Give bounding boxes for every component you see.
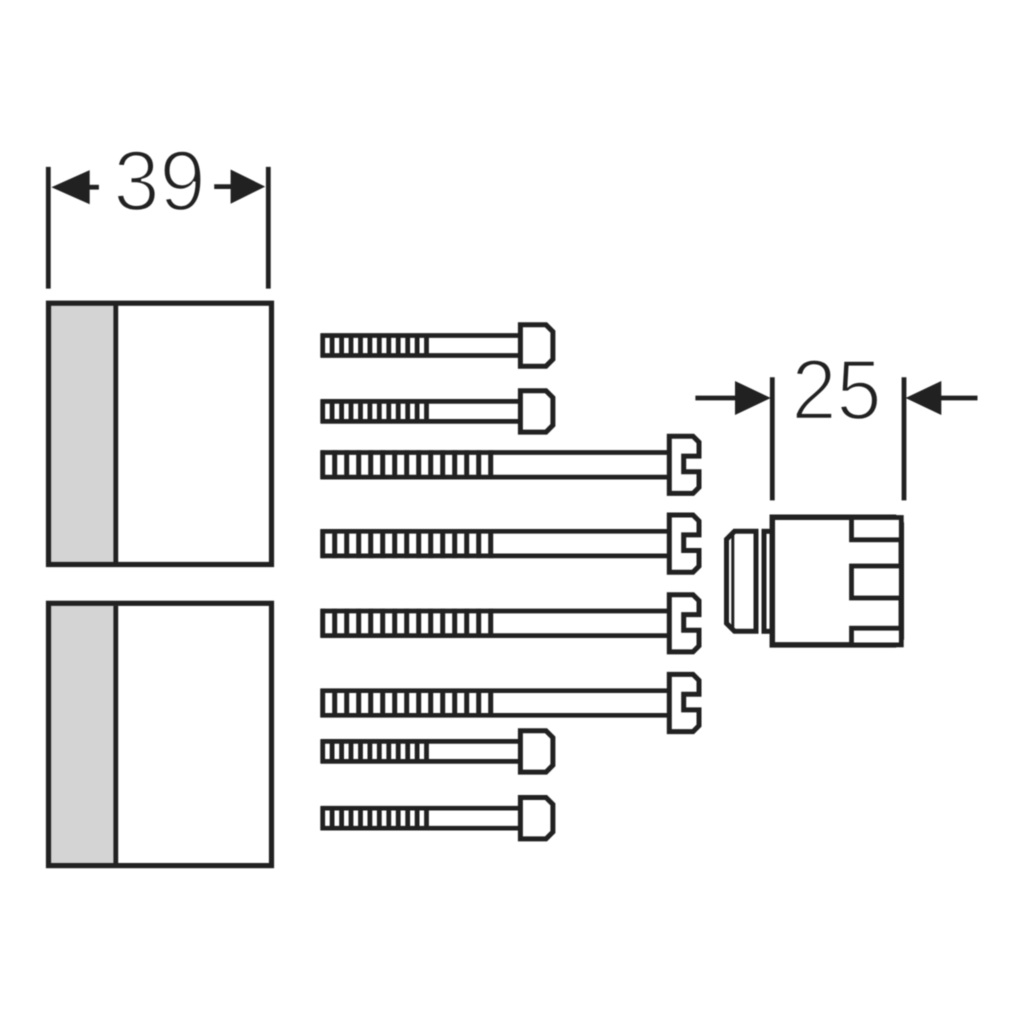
screw S5 (long slotted cheese-head screw)	[321, 595, 699, 652]
block 1: inner divider line	[113, 306, 118, 563]
adapter: middle spline slot	[852, 566, 902, 598]
screw S7 (short cap-head screw)	[321, 731, 553, 772]
dimension 39: value label "39"	[114, 134, 206, 229]
adapter: spigot inner contour line	[731, 535, 734, 628]
svg-text:25: 25	[792, 343, 882, 438]
adapter: collar ring groove	[764, 531, 772, 631]
adapter: main body (chamfered right corners)	[772, 517, 901, 645]
screw S4 (long slotted cheese-head screw)	[321, 515, 699, 572]
dimension 25: right arrow (points left)	[906, 381, 978, 415]
block 2: outline	[49, 603, 272, 865]
dimension 25: left arrow (points right)	[695, 381, 770, 415]
dimension 25: left extension line	[770, 377, 775, 500]
screw S6 (long slotted cheese-head screw)	[321, 674, 699, 731]
dimension 25: value label "25"	[792, 343, 882, 438]
dimension 39: right arrow (points right)	[214, 170, 265, 204]
block 2 (lower plate): gray left band	[51, 606, 116, 864]
svg-text:39: 39	[114, 134, 206, 229]
dimension 39: left extension line	[46, 167, 51, 289]
dimension 39: right extension line	[266, 167, 271, 289]
adapter: front spigot (chamfered left corners)	[727, 531, 757, 631]
block 1 (upper plate): gray left band	[51, 306, 116, 563]
adapter: bottom spline slot	[852, 628, 902, 645]
adapter: top spline slot	[852, 518, 902, 540]
screw S3 (long slotted cheese-head screw)	[321, 436, 699, 493]
screw S1 (short cap-head screw)	[321, 325, 553, 366]
screw S8 (short cap-head screw)	[321, 798, 553, 839]
screw S2 (short cap-head screw)	[321, 391, 553, 432]
dimension 25: right extension line	[902, 377, 907, 500]
block 2: inner divider line	[113, 606, 118, 864]
dimension 39: left arrow (points left)	[51, 170, 99, 204]
block 1: outline	[49, 303, 272, 564]
